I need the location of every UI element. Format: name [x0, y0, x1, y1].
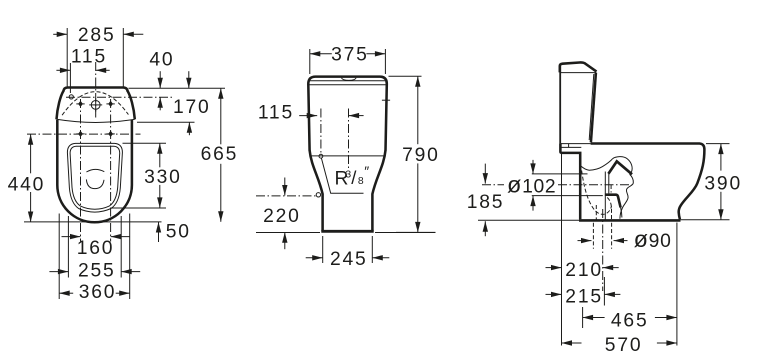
- node left-view hole line right: [110, 99, 112, 242]
- svg-text:665: 665: [201, 144, 239, 165]
- svg-text:790: 790: [402, 145, 440, 166]
- node dim 160: [70, 234, 81, 239]
- wire right lid bottom: [560, 72, 597, 74]
- wire left-view dashed lid arc: [62, 92, 128, 116]
- wire middle pedestal bottom: [321, 230, 373, 233]
- wire right base bottom: [579, 219, 681, 222]
- node dim 330: [157, 143, 162, 154]
- svg-text:50: 50: [166, 222, 191, 243]
- node left-view center line: [95, 62, 97, 118]
- node dim 570: [562, 340, 573, 345]
- wire R3/8 leader: [321, 158, 363, 194]
- wire left-view cistern bottom curve: [57, 119, 135, 122]
- wire extension lines left view: [129, 87, 226, 89]
- svg-text:390: 390: [704, 174, 742, 195]
- wire left-view trap arc: [86, 169, 104, 172]
- wire left-view trap cup: [86, 179, 104, 188]
- wire middle cistern outline: [308, 77, 387, 151]
- node dim 360: [59, 291, 69, 296]
- node dim 102: [530, 163, 535, 174]
- wire right cistern back wall: [559, 65, 561, 143]
- node dim 285: [57, 32, 67, 37]
- wire bottom ext lines right view: [561, 153, 563, 346]
- svg-text:285: 285: [78, 25, 116, 46]
- node middle inlet axis: [320, 109, 322, 154]
- wire right cistern lid: [560, 62, 597, 72]
- svg-text:40: 40: [149, 50, 174, 71]
- wire dim102 ext lines: [532, 173, 588, 175]
- node dim 440: [28, 134, 33, 145]
- svg-text:465: 465: [611, 311, 649, 332]
- wire right cistern front wall: [591, 73, 596, 143]
- node dim 40: [158, 78, 163, 89]
- node dim 90: [581, 238, 592, 243]
- wire middle lid lines: [309, 80, 387, 82]
- svg-text:330: 330: [144, 167, 182, 188]
- svg-text:170: 170: [173, 97, 211, 118]
- node middle push button: [342, 78, 357, 81]
- wire middle transition to pedestal: [310, 150, 323, 231]
- node fixing hole marks seat: [78, 131, 83, 137]
- wire left-view seat inner: [70, 146, 120, 209]
- node dim 465: [583, 315, 594, 320]
- svg-text:115: 115: [71, 46, 107, 67]
- svg-text:245: 245: [330, 249, 368, 270]
- node left-view cistern holes axis: [66, 96, 175, 98]
- wire 790 ext lines: [389, 75, 422, 77]
- node dim 375: [310, 51, 321, 56]
- svg-text:8: 8: [358, 176, 364, 187]
- wire middle junction line: [310, 155, 385, 157]
- wire trap weir thick: [608, 161, 632, 174]
- wire trap bulge: [613, 157, 633, 175]
- wire 245 ext lines: [322, 236, 324, 263]
- node dim 390: [718, 144, 723, 155]
- node fixing hole marks cistern: [78, 101, 83, 107]
- wire middle bottom ext line: [256, 232, 320, 234]
- node trap axis horizontal: [482, 184, 504, 186]
- svg-text:210: 210: [565, 260, 603, 281]
- node center hole mark: [91, 101, 100, 110]
- svg-text:215: 215: [565, 286, 603, 307]
- svg-text:″: ″: [364, 163, 369, 179]
- wire outlet dashed below: [592, 223, 594, 249]
- node outlet axis: [602, 209, 604, 291]
- node dim 185: [483, 173, 488, 184]
- node dim 210: [551, 265, 562, 270]
- node middle wall tick: [382, 99, 390, 101]
- svg-text:220: 220: [263, 206, 301, 227]
- node dim 790: [415, 76, 420, 87]
- svg-text:160: 160: [77, 238, 115, 259]
- wire right bowl back and base: [560, 143, 580, 219]
- wire trap outlet thick: [605, 195, 621, 208]
- node middle inlet circle top: [319, 154, 323, 158]
- svg-text:360: 360: [79, 282, 117, 303]
- node left-view seat holes axis: [27, 133, 141, 135]
- node dim 665: [218, 88, 223, 99]
- svg-text:115: 115: [258, 103, 294, 124]
- svg-text:440: 440: [8, 175, 46, 196]
- svg-text:185: 185: [467, 192, 505, 213]
- node middle side inlet axis: [256, 195, 316, 197]
- wire trap upper surface: [580, 159, 612, 171]
- node dim 50: [156, 222, 161, 233]
- node inlet hole left view: [69, 95, 73, 99]
- node middle inlet circle side: [316, 193, 320, 197]
- node left-view hole line left: [80, 99, 82, 242]
- wire left-view cistern outline: [63, 88, 127, 92]
- svg-text:255: 255: [78, 261, 116, 282]
- wire trap channel line: [604, 172, 606, 220]
- wire trap hidden dashed: [582, 171, 612, 215]
- node dim 245: [312, 255, 323, 260]
- wire right rim and front profile: [591, 144, 705, 220]
- svg-text:375: 375: [331, 45, 369, 66]
- svg-text:/: /: [351, 167, 357, 188]
- node dim 115 left view: [60, 68, 71, 73]
- node dim 115 middle: [307, 113, 318, 118]
- wire left-view bowl outline: [57, 120, 132, 222]
- node dim 215: [551, 292, 562, 297]
- wire left-view seat outer: [67, 143, 122, 212]
- wire 375 ext lines: [309, 49, 311, 74]
- node dim 170: [186, 78, 191, 89]
- wire trap front wavy edge: [620, 174, 633, 219]
- node dim 220: [282, 185, 287, 196]
- wire base ext lines: [478, 219, 579, 221]
- svg-text:570: 570: [605, 335, 643, 353]
- wire right shelf step: [560, 143, 590, 145]
- node dim 255: [58, 269, 69, 274]
- node middle center axis: [348, 109, 350, 169]
